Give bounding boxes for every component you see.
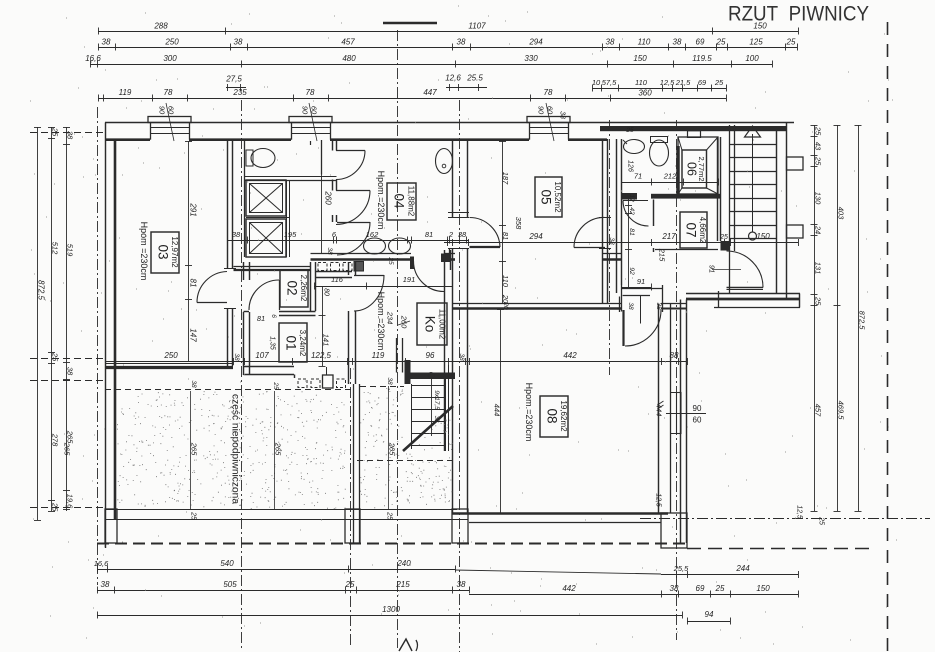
- svg-text:38: 38: [608, 237, 615, 245]
- stipple dashed y460: [357, 460, 453, 462]
- svg-text:38: 38: [234, 38, 243, 47]
- svg-text:38: 38: [433, 416, 439, 423]
- room 08 dim vline: [500, 309, 502, 513]
- svg-text:25: 25: [625, 127, 634, 134]
- room 05 west wall: [452, 139, 454, 218]
- squares row 1: [318, 263, 327, 271]
- shaft right wall: [286, 180, 288, 257]
- stair steps: [730, 144, 777, 146]
- svg-text:2,26m2: 2,26m2: [299, 275, 308, 302]
- window W1 90/60: [148, 117, 191, 123]
- door 03 arc: [197, 302, 227, 304]
- svg-text:60: 60: [546, 106, 555, 115]
- dim line y240: [227, 240, 469, 242]
- axis x97: [97, 107, 99, 585]
- north wall inner thick: [105, 138, 150, 141]
- svg-text:27,5: 27,5: [225, 75, 242, 84]
- wc door arc3: [337, 222, 370, 224]
- wall x348: [348, 262, 350, 275]
- shower shaft 06: [678, 137, 718, 194]
- svg-text:444: 444: [493, 404, 502, 417]
- svg-text:RZUT PIWNICY: RZUT PIWNICY: [728, 3, 869, 26]
- wall x243 upper: [243, 262, 245, 280]
- svg-text:150: 150: [753, 22, 767, 31]
- axis x609: [609, 120, 611, 375]
- svg-text:25: 25: [345, 580, 355, 589]
- stair west wall: [729, 125, 731, 293]
- dim line y242 mid: [444, 242, 611, 244]
- svg-text:2: 2: [448, 230, 454, 239]
- svg-text:147: 147: [188, 328, 197, 342]
- basin pair: [364, 238, 386, 254]
- svg-text:Hpom =230cm: Hpom =230cm: [139, 222, 149, 281]
- svg-text:294: 294: [528, 232, 543, 241]
- svg-text:215: 215: [658, 248, 667, 262]
- svg-text:360: 360: [638, 89, 652, 98]
- svg-text:81: 81: [628, 228, 635, 236]
- svg-text:57,5: 57,5: [602, 78, 617, 87]
- door ko jamb: [411, 257, 414, 269]
- svg-text:25: 25: [386, 511, 393, 520]
- axis x676: [676, 120, 678, 640]
- svg-text:11,88m2: 11,88m2: [406, 186, 415, 217]
- svg-text:25,5: 25,5: [673, 564, 689, 573]
- svg-text:05: 05: [539, 189, 554, 204]
- window W2 90/60: [289, 117, 332, 123]
- svg-text:25: 25: [51, 352, 60, 362]
- dim rowA left: [97, 569, 455, 571]
- axis x241: [241, 100, 243, 648]
- dim row5 line: [98, 98, 565, 100]
- svg-text:42: 42: [628, 207, 635, 215]
- svg-text:19,6: 19,6: [66, 494, 75, 509]
- axis x397: [397, 30, 399, 648]
- door 05w arc: [470, 246, 501, 248]
- svg-text:265: 265: [388, 442, 397, 456]
- svg-text:43: 43: [814, 142, 823, 151]
- svg-text:212: 212: [663, 172, 677, 181]
- pier s2: [345, 509, 360, 543]
- room 03 dim vline: [188, 141, 190, 361]
- ko wall block: [441, 254, 450, 263]
- ko east wall: [444, 250, 446, 451]
- svg-text:część niepodpiwniczona: część niepodpiwniczona: [230, 394, 241, 504]
- svg-text:08: 08: [545, 408, 560, 423]
- stipple bottom line: [105, 509, 457, 511]
- svg-text:265: 265: [190, 442, 199, 456]
- dim rowC: [97, 615, 682, 617]
- shower shaft 06 wall: [676, 146, 680, 194]
- svg-text:71: 71: [634, 172, 642, 181]
- svg-text:12: 12: [628, 194, 635, 202]
- svg-text:60: 60: [693, 416, 702, 425]
- door 05e arc: [574, 247, 605, 249]
- wc west wall: [244, 139, 246, 257]
- room label 03 box: [151, 232, 179, 273]
- svg-text:110: 110: [638, 38, 651, 47]
- dim rowB right: [469, 594, 798, 596]
- hall dim line y182: [621, 182, 718, 184]
- hall west wall: [616, 139, 618, 293]
- svg-text:25: 25: [51, 502, 60, 512]
- svg-text:125: 125: [749, 38, 763, 47]
- svg-text:294: 294: [528, 38, 543, 47]
- svg-text:25: 25: [715, 584, 725, 593]
- dim 260 vline: [321, 140, 323, 175]
- svg-text:38: 38: [673, 38, 682, 47]
- svg-text:130: 130: [814, 192, 823, 205]
- toilet 06: [650, 140, 669, 166]
- svg-text:162: 162: [366, 230, 379, 239]
- svg-text:03: 03: [156, 244, 171, 259]
- room label 01 box: [279, 323, 307, 362]
- svg-text:141: 141: [322, 334, 331, 347]
- stair arrow: [745, 126, 761, 137]
- room 03 bottom wall thick: [105, 366, 233, 369]
- east stair wall: [776, 131, 778, 293]
- svg-text:217: 217: [661, 232, 676, 241]
- svg-text:358: 358: [514, 217, 523, 230]
- svg-text:505: 505: [223, 580, 237, 589]
- door ko-corr arc: [354, 275, 384, 277]
- north wall outer line: [105, 122, 794, 124]
- svg-text:60: 60: [167, 106, 176, 115]
- svg-text:25: 25: [818, 516, 825, 525]
- svg-text:Hpom.=230cm: Hpom.=230cm: [376, 171, 386, 230]
- room 05 south wall: [452, 303, 622, 305]
- window E 90/60: [670, 392, 681, 394]
- stipple top dashed: [105, 389, 352, 391]
- svg-text:Ko: Ko: [423, 316, 438, 333]
- svg-text:131: 131: [814, 262, 823, 275]
- right dim line a: [814, 125, 816, 511]
- svg-text:330: 330: [524, 54, 538, 63]
- svg-text:81: 81: [425, 230, 433, 239]
- room label 02 box: [280, 270, 308, 307]
- svg-text:265: 265: [63, 442, 72, 456]
- vent box in band: [688, 131, 701, 138]
- wall A x227-233: [227, 139, 229, 268]
- svg-text:12,5: 12,5: [660, 78, 675, 87]
- svg-text:122,5: 122,5: [311, 351, 332, 360]
- door ko arc: [414, 261, 445, 292]
- svg-text:81: 81: [257, 314, 265, 323]
- south wall dashed heavy: [97, 543, 687, 545]
- svg-text:25: 25: [51, 127, 60, 137]
- svg-text:150: 150: [633, 54, 647, 63]
- svg-text:4,66m2: 4,66m2: [698, 217, 707, 244]
- shaft divider: [246, 217, 289, 219]
- svg-text:25: 25: [272, 381, 279, 390]
- ko stairs center: [431, 377, 433, 436]
- svg-text:90: 90: [301, 106, 310, 115]
- svg-text:250: 250: [164, 38, 179, 47]
- svg-text:91: 91: [637, 277, 645, 286]
- dim rowA right: [455, 570, 661, 574]
- svg-text:90: 90: [158, 106, 167, 115]
- squares row 2: [298, 379, 307, 388]
- svg-text:150: 150: [756, 232, 770, 241]
- svg-text:234: 234: [386, 311, 395, 325]
- svg-text:69: 69: [696, 584, 705, 593]
- svg-text:24: 24: [814, 225, 823, 234]
- left dim line mid: [51, 127, 53, 511]
- svg-text:442: 442: [563, 351, 577, 360]
- left dashed y358: [30, 358, 104, 360]
- svg-text:244: 244: [735, 564, 750, 573]
- svg-text:250: 250: [163, 351, 178, 360]
- right dim line b: [837, 125, 839, 511]
- dim 27.5 line: [226, 87, 246, 89]
- svg-text:78: 78: [164, 88, 173, 97]
- svg-text:12,5: 12,5: [796, 505, 803, 519]
- mid wall band B: [311, 253, 412, 255]
- svg-text:442: 442: [562, 584, 576, 593]
- svg-text:150: 150: [756, 584, 770, 593]
- stipple unexcavated area: [117, 387, 453, 509]
- svg-text:25: 25: [716, 38, 726, 47]
- south long dash: [687, 548, 872, 550]
- right dim line c: [858, 125, 860, 511]
- svg-text:25: 25: [714, 78, 724, 87]
- room label Ko box: [417, 303, 447, 345]
- west wall outer: [105, 123, 107, 549]
- room label 04 box: [387, 183, 416, 220]
- svg-text:38: 38: [606, 38, 615, 47]
- svg-text:457: 457: [814, 404, 823, 417]
- hall dim vline: [628, 196, 630, 287]
- door 08 arc: [622, 310, 624, 346]
- svg-text:81: 81: [501, 232, 510, 240]
- svg-text:06: 06: [684, 162, 698, 176]
- svg-text:91: 91: [708, 265, 717, 273]
- svg-text:240: 240: [396, 559, 411, 568]
- wc door arc2: [336, 190, 370, 192]
- wc cell wall: [244, 176, 337, 178]
- svg-text:25: 25: [814, 126, 823, 136]
- svg-text:38: 38: [386, 377, 393, 385]
- door 02 arc: [249, 280, 279, 310]
- svg-text:69: 69: [696, 38, 705, 47]
- svg-text:07: 07: [684, 222, 699, 237]
- left dim line inner: [66, 127, 68, 511]
- axis y518: [640, 518, 930, 520]
- door 06 arc: [623, 200, 648, 202]
- svg-text:107: 107: [255, 351, 269, 360]
- svg-text:540: 540: [220, 559, 234, 568]
- svg-text:10: 10: [592, 78, 601, 87]
- svg-text:94: 94: [705, 610, 714, 619]
- wall y311: [244, 311, 250, 313]
- svg-text:25: 25: [719, 234, 728, 241]
- pier se: [661, 513, 687, 548]
- room 05 dim vline: [502, 141, 504, 303]
- dim row1 ticks: [98, 28, 100, 35]
- north wall stair-side black band: [600, 126, 786, 131]
- svg-text:195: 195: [284, 230, 297, 239]
- svg-text:25: 25: [190, 511, 197, 520]
- svg-text:20: 20: [502, 301, 509, 310]
- svg-text:01: 01: [284, 335, 299, 350]
- svg-text:265: 265: [274, 442, 283, 456]
- svg-text:191: 191: [403, 275, 416, 284]
- svg-text:235: 235: [232, 88, 247, 97]
- room 04 east wall: [449, 248, 451, 260]
- wall x310: [310, 262, 312, 311]
- dim line y287: [621, 287, 651, 289]
- svg-text:119: 119: [372, 351, 385, 360]
- room 01 bottom wall: [244, 366, 295, 368]
- svg-text:38: 38: [458, 230, 467, 239]
- svg-text:872,5: 872,5: [858, 311, 867, 331]
- svg-text:119: 119: [119, 88, 132, 97]
- svg-text:25: 25: [814, 156, 823, 166]
- svg-text:278: 278: [51, 433, 60, 447]
- east wall stub window 2: [787, 225, 804, 238]
- svg-text:403: 403: [837, 207, 846, 220]
- svg-text:480: 480: [342, 54, 356, 63]
- wall y271 corr: [316, 271, 353, 273]
- svg-text:38: 38: [326, 247, 333, 255]
- stair center line: [752, 134, 754, 232]
- svg-text:288: 288: [153, 22, 168, 31]
- svg-text:519: 519: [66, 244, 75, 257]
- dim line y242 hall: [607, 242, 798, 244]
- svg-text:1107: 1107: [468, 22, 486, 31]
- door 08 vestibule frame: [622, 288, 663, 290]
- svg-text:19,62m2: 19,62m2: [559, 400, 568, 432]
- ko south wall: [405, 360, 411, 384]
- wall black bar 06: [651, 194, 720, 199]
- dim rowB left: [97, 590, 469, 592]
- dim line y361 labels: [105, 361, 687, 363]
- corridor west wall x332: [332, 139, 334, 151]
- svg-text:116: 116: [331, 275, 344, 284]
- svg-text:126: 126: [627, 160, 634, 172]
- dim 360 line: [565, 98, 726, 100]
- room label 08 box: [540, 396, 568, 437]
- svg-text:16,6: 16,6: [85, 54, 101, 63]
- svg-text:25: 25: [814, 296, 823, 306]
- svg-text:1,35: 1,35: [269, 336, 276, 350]
- svg-text:300: 300: [163, 54, 177, 63]
- ko west wall piece: [396, 338, 398, 373]
- svg-text:38: 38: [559, 111, 566, 119]
- svg-text:3,24m2: 3,24m2: [298, 330, 307, 357]
- 08 east wall: [658, 304, 660, 514]
- svg-text:469,5: 469,5: [837, 401, 846, 421]
- dim row1 line: [98, 31, 798, 33]
- shaft box X1: [246, 180, 286, 216]
- south wall inner line: [105, 519, 468, 521]
- room label 06 box: [682, 150, 707, 188]
- left dashed y380: [30, 380, 104, 382]
- svg-text:38: 38: [458, 353, 465, 361]
- dim row2 ticks: [98, 44, 100, 51]
- east wall stub window 1: [787, 157, 804, 170]
- svg-text:10,52m2: 10,52m2: [553, 181, 562, 213]
- left dim line 872.5: [37, 127, 39, 520]
- axis x459: [459, 100, 461, 652]
- svg-text:25: 25: [387, 256, 394, 265]
- svg-text:872,5: 872,5: [36, 280, 45, 301]
- top reference bar: [383, 22, 437, 24]
- svg-text:78: 78: [544, 88, 553, 97]
- svg-text:2,77m2: 2,77m2: [697, 156, 706, 181]
- west wall inner: [114, 140, 117, 519]
- svg-text:38: 38: [457, 580, 466, 589]
- stipple dim lines: [190, 391, 192, 509]
- corr dim line y286: [314, 286, 452, 288]
- stipple wall x353: [353, 384, 355, 543]
- svg-text:04: 04: [392, 193, 407, 209]
- svg-text:38: 38: [655, 302, 662, 310]
- svg-text:38: 38: [66, 367, 75, 376]
- svg-text:38: 38: [233, 353, 240, 361]
- svg-text:90: 90: [693, 404, 702, 413]
- pier sw: [105, 509, 117, 543]
- svg-text:6: 6: [270, 314, 277, 318]
- stairhall south wall: [686, 293, 800, 295]
- ko stairs steps: [411, 385, 445, 387]
- svg-text:12,5: 12,5: [655, 493, 662, 507]
- svg-text:16,6: 16,6: [94, 559, 109, 568]
- svg-text:447: 447: [423, 88, 437, 97]
- svg-text:457: 457: [341, 38, 355, 47]
- svg-text:90: 90: [537, 106, 546, 115]
- svg-text:38: 38: [101, 580, 110, 589]
- svg-text:80: 80: [323, 288, 330, 296]
- svg-text:9x17,5: 9x17,5: [433, 390, 440, 410]
- SE wall pair: [680, 300, 682, 544]
- axis far right: [887, 22, 889, 652]
- svg-text:38: 38: [627, 302, 634, 310]
- svg-text:38: 38: [457, 38, 466, 47]
- dim row3 ticks: [90, 61, 92, 68]
- basin 04: [436, 149, 453, 174]
- svg-text:100: 100: [745, 54, 759, 63]
- svg-text:Hpom.=230cm: Hpom.=230cm: [524, 383, 534, 442]
- ko stairs diagonal: [403, 406, 453, 451]
- dim 12.6/25.5 line: [446, 87, 487, 89]
- left dashed y132: [30, 132, 104, 134]
- room 07 north line: [655, 249, 718, 251]
- svg-text:25.5: 25.5: [466, 74, 483, 83]
- svg-text:78: 78: [306, 88, 315, 97]
- wall x243 lower: [243, 312, 245, 375]
- dim vline x322: [322, 286, 324, 366]
- svg-text:512: 512: [51, 242, 60, 255]
- svg-text:96: 96: [426, 351, 435, 360]
- svg-text:260: 260: [323, 190, 332, 205]
- window W3 90/60: [527, 117, 570, 123]
- mid wall band A: [234, 266, 311, 268]
- bottom caret mark: [399, 639, 412, 651]
- room 07 west wall: [653, 200, 655, 227]
- svg-text:444: 444: [655, 404, 664, 417]
- room label 07 box: [680, 212, 707, 248]
- svg-text:12,6: 12,6: [445, 74, 461, 83]
- svg-text:12,97m2: 12,97m2: [170, 236, 179, 268]
- door 07 jamb: [721, 241, 730, 251]
- svg-text:60: 60: [310, 106, 319, 115]
- svg-text:110: 110: [501, 275, 510, 288]
- dim row4 line: [592, 88, 726, 90]
- dim row2 line: [98, 47, 797, 49]
- svg-text:25: 25: [786, 38, 796, 47]
- basin 06: [624, 140, 645, 154]
- svg-text:69: 69: [698, 78, 707, 87]
